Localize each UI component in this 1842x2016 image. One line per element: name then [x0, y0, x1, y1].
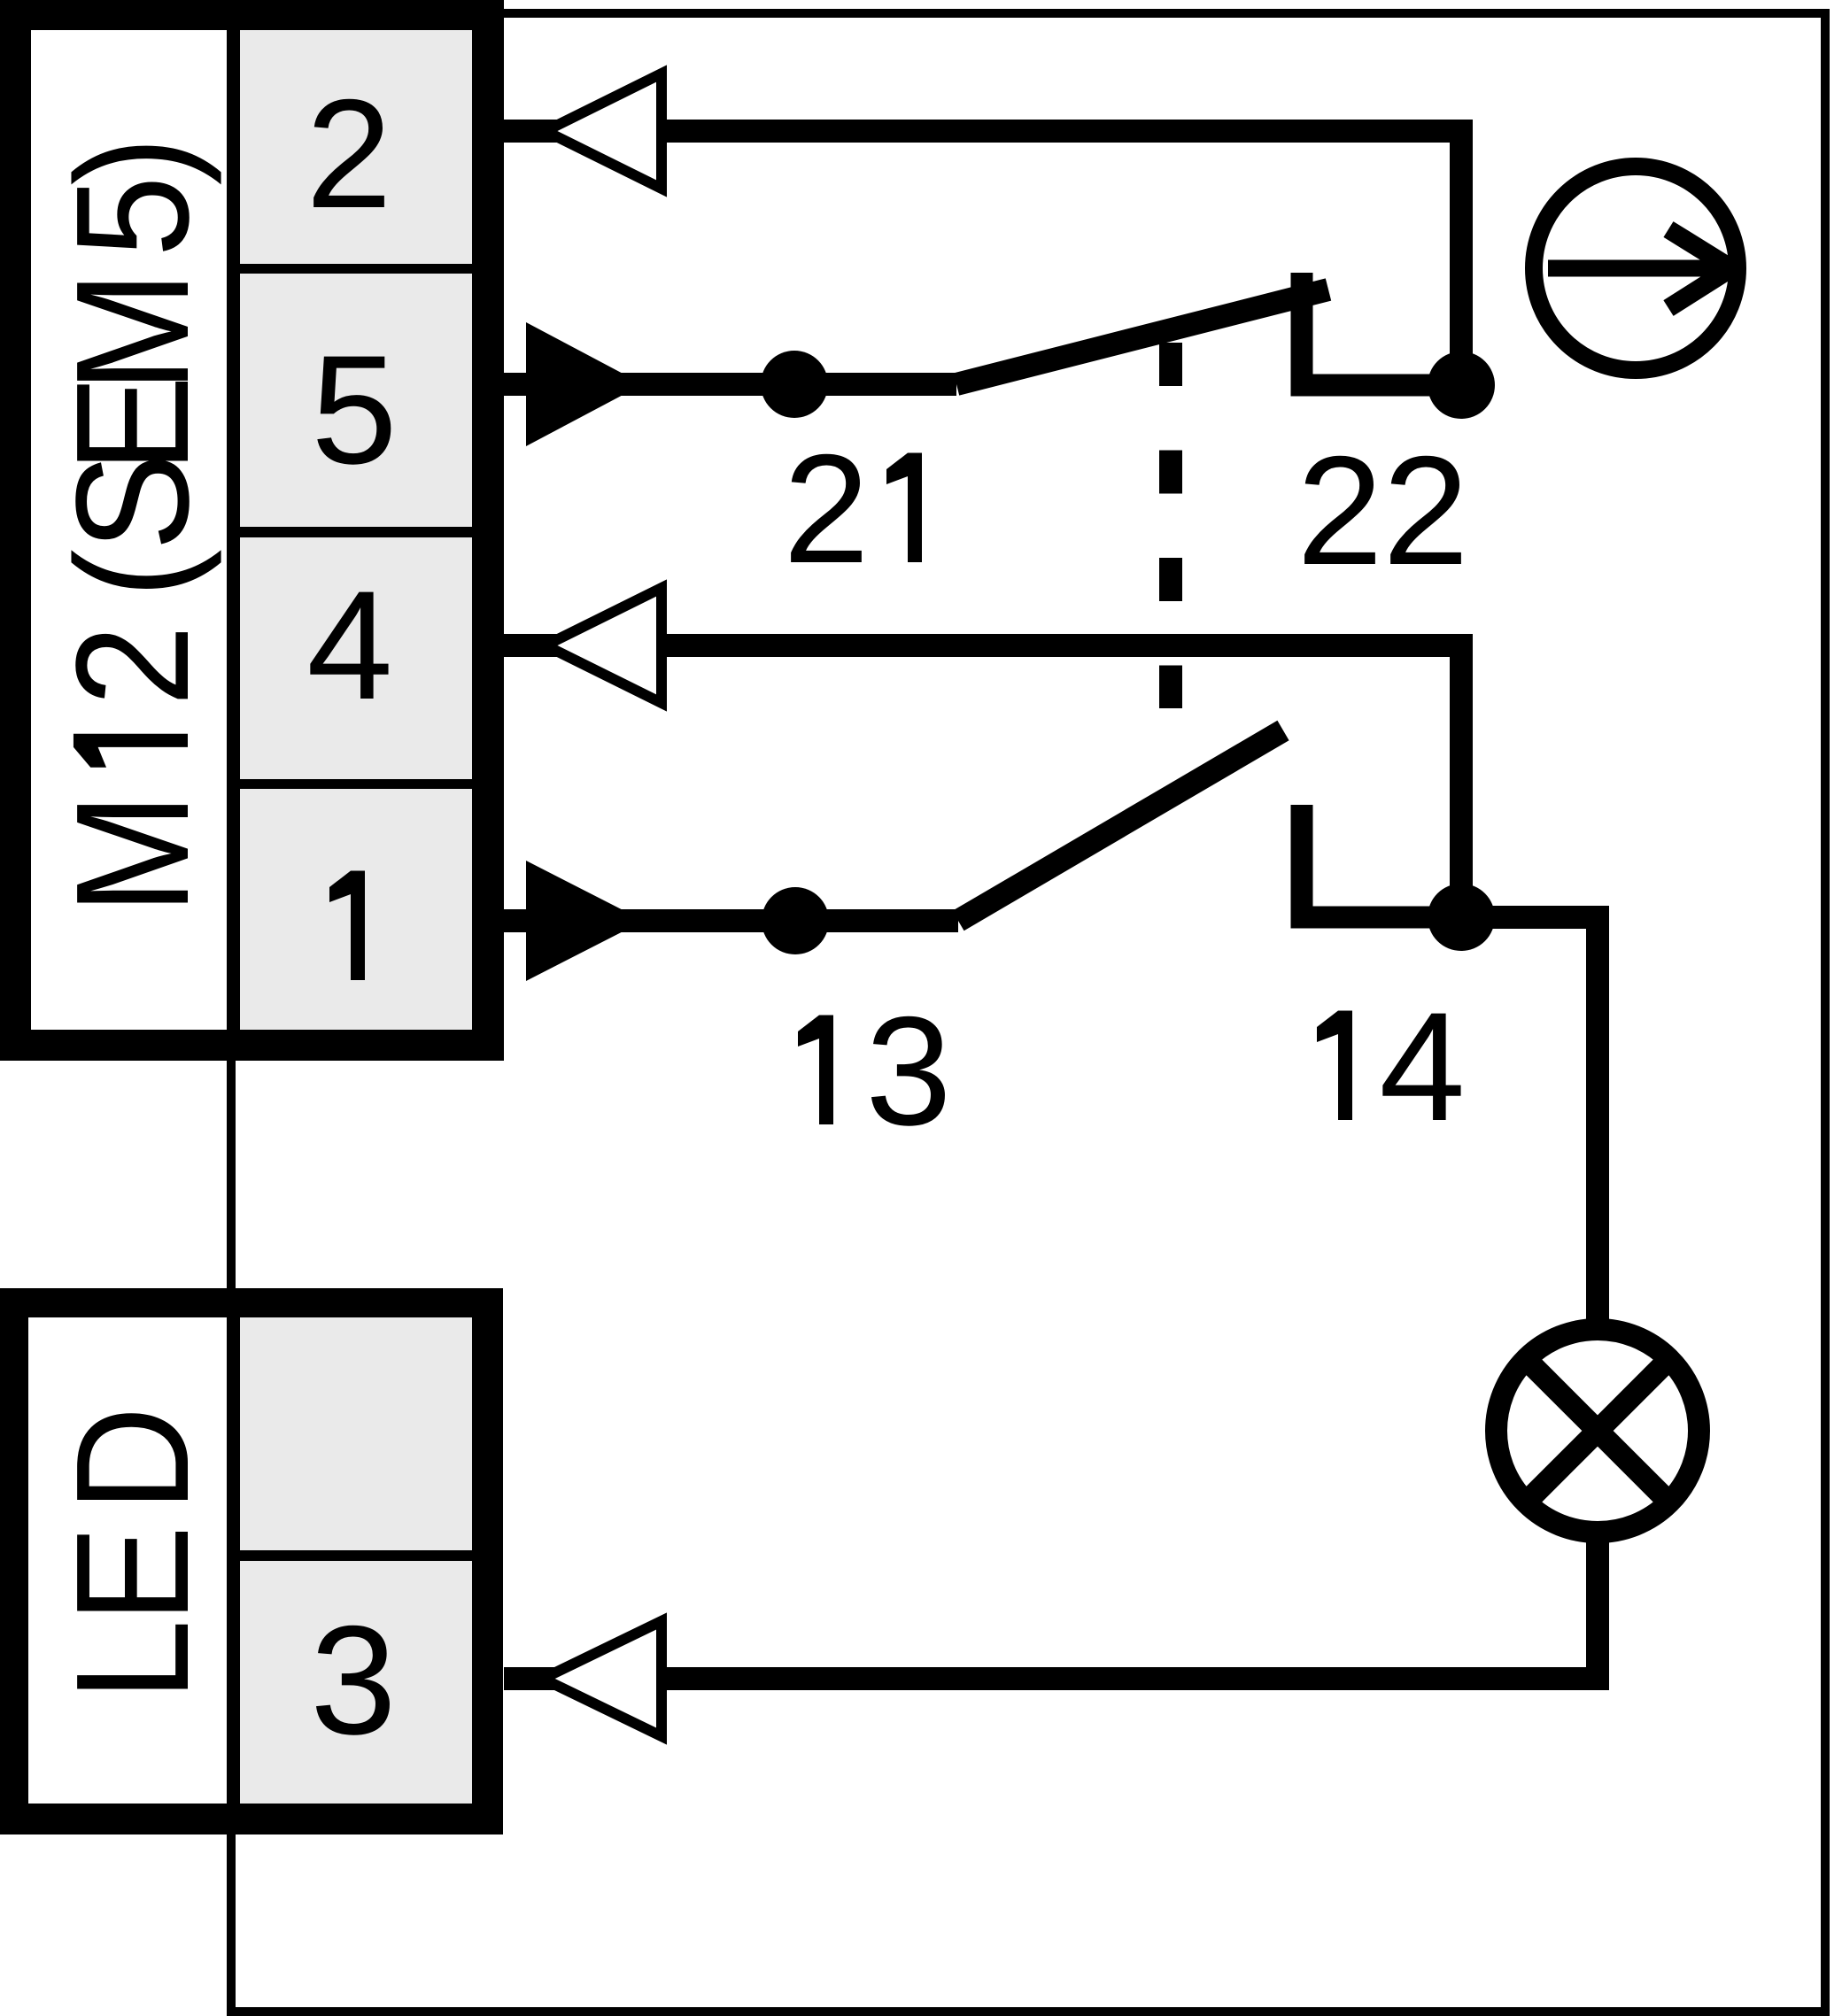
- svg-text:D: D: [43, 1406, 222, 1511]
- wire pin 4 to contact 14: [504, 645, 1461, 917]
- pin cell 5: [240, 274, 472, 527]
- wire pin 2 to contact 22: [504, 131, 1461, 385]
- pin cell 3: [240, 1561, 472, 1804]
- svg-text:M: M: [43, 793, 222, 915]
- junction dot terminal 14: [1428, 884, 1495, 951]
- svg-text:2: 2: [43, 625, 222, 707]
- contact 14 terminal bracket: [1302, 805, 1461, 917]
- switch blade 13-14 (NO contact): [958, 730, 1283, 921]
- LED blank cell: [240, 1317, 472, 1550]
- svg-text:2: 2: [1382, 425, 1468, 598]
- wire pin 5 to contact 21: [504, 373, 956, 396]
- svg-text:3: 3: [310, 1595, 396, 1767]
- lamp / LED indicator symbol: [1497, 1330, 1699, 1533]
- wire lamp to pin 3: [504, 1532, 1598, 1679]
- svg-text:2: 2: [306, 68, 391, 241]
- svg-text:2: 2: [783, 423, 869, 596]
- junction dot terminal 13: [762, 887, 829, 954]
- pin cell 1: [240, 789, 472, 1030]
- contact label 13: [798, 1016, 833, 1125]
- mechanical link dashed line: [1159, 343, 1182, 708]
- svg-text:5: 5: [43, 176, 222, 258]
- actuation direction symbol (circle with arrow): [1534, 166, 1738, 370]
- contact label 14: [1317, 1011, 1352, 1121]
- M12 connector box: [0, 0, 504, 1061]
- junction dot terminal 22: [1428, 351, 1495, 419]
- open arrowhead pin 2: [546, 73, 662, 189]
- svg-text:4: 4: [306, 560, 392, 732]
- junction dot terminal 21: [761, 351, 828, 418]
- svg-text:3: 3: [865, 985, 951, 1158]
- contact 22 terminal bracket: [1302, 273, 1461, 385]
- switch blade 21-22 (NC contact): [956, 290, 1328, 384]
- svg-text:2: 2: [1296, 425, 1382, 598]
- svg-text:L: L: [43, 1619, 222, 1701]
- svg-text:4: 4: [1379, 981, 1465, 1154]
- svg-text:M: M: [43, 271, 222, 392]
- label M12 (SEM5): [43, 136, 222, 915]
- wire pin 1 to contact 13: [504, 909, 958, 932]
- open arrowhead pin 4: [546, 588, 662, 703]
- svg-text:(: (: [43, 549, 222, 598]
- pin cell 2: [240, 30, 472, 264]
- label LED: [43, 1406, 222, 1701]
- LED connector box: [0, 1288, 503, 1834]
- pin number 1: [329, 871, 365, 981]
- svg-text:5: 5: [311, 324, 397, 497]
- filled arrowhead pin 5: [526, 322, 643, 446]
- pin cell 4: [240, 537, 472, 779]
- open arrowhead pin 3: [543, 1621, 662, 1736]
- svg-text:E: E: [43, 1526, 222, 1623]
- filled arrowhead pin 1: [526, 861, 644, 981]
- wire contact 14 to lamp: [1461, 917, 1598, 1330]
- svg-text:): ): [43, 136, 222, 185]
